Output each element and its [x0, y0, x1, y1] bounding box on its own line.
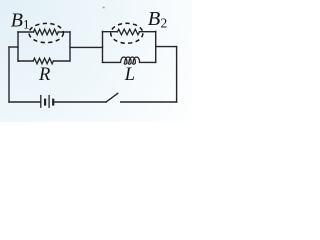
- wire: right stub to parallel block: [156, 46, 177, 48]
- svg-text:B: B: [11, 10, 23, 32]
- wire: left block right vertical: [69, 32, 71, 61]
- battery cell 1 long plate: [40, 95, 42, 108]
- wire: right block right vertical: [155, 31, 157, 62]
- switch lever (open): [106, 93, 118, 102]
- svg-text:R: R: [38, 65, 50, 85]
- svg-text:B: B: [148, 8, 161, 30]
- wire: left block left vertical: [17, 32, 19, 61]
- wire: B2 branch lead-out: [139, 31, 155, 33]
- wire: L branch lead-in: [103, 61, 121, 63]
- lamp B2 filament (resistive zigzag): [117, 29, 139, 35]
- svg-text:L: L: [124, 65, 135, 85]
- lamp B1 dashed envelope ellipse: [29, 23, 63, 42]
- wire: outer right vertical: [176, 47, 178, 102]
- lamp B1 filament (resistive zigzag): [34, 29, 59, 35]
- wire: B1 branch lead-out: [58, 31, 70, 33]
- wire: bottom segment battery to switch: [54, 101, 106, 103]
- svg-text:1: 1: [23, 17, 30, 32]
- wire: R branch lead-out: [53, 60, 70, 62]
- battery cell 2 long plate: [48, 95, 50, 108]
- svg-text:2: 2: [161, 15, 168, 30]
- wire: right block left vertical: [102, 31, 104, 62]
- battery cell 1 short plate: [44, 99, 46, 106]
- wire: left stub to parallel block: [9, 46, 18, 48]
- wire: bottom left segment to battery: [9, 101, 40, 103]
- wire: B1 branch lead-in: [18, 31, 34, 33]
- resistor R zigzag: [33, 58, 53, 64]
- wire: middle link between blocks: [70, 46, 103, 48]
- battery cell 2 short plate: [52, 99, 54, 106]
- speck above B2: [103, 7, 105, 9]
- wire: L branch lead-out: [140, 61, 156, 63]
- wire: bottom right segment from switch to corner: [121, 101, 177, 103]
- wire: R branch lead-in: [18, 60, 33, 62]
- lamp B2 dashed envelope ellipse: [111, 23, 143, 43]
- wire: B2 branch lead-in: [103, 31, 118, 33]
- wire: outer left vertical: [8, 47, 10, 102]
- inductor L coil: [121, 57, 140, 64]
